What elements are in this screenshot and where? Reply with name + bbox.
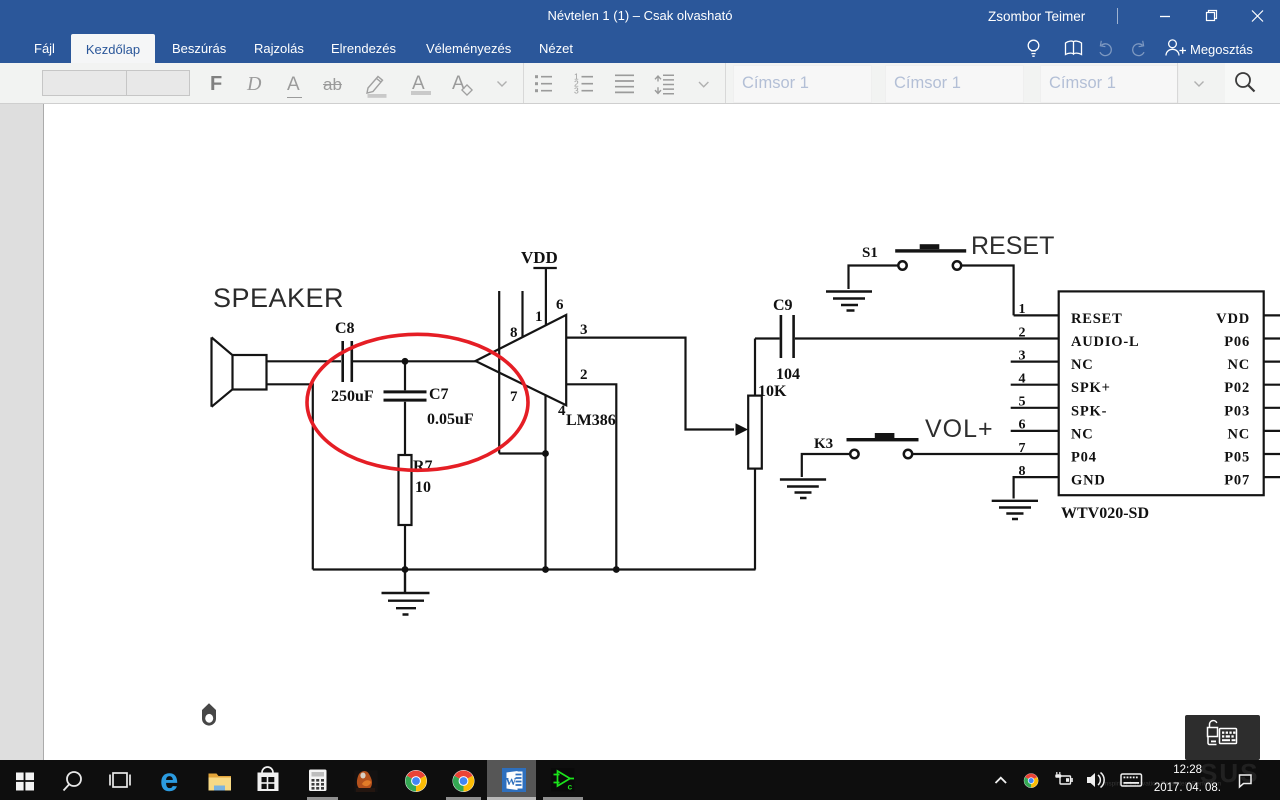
wire R7 to ground rail xyxy=(404,525,406,570)
wire S1 to ground xyxy=(849,266,899,290)
svg-text:SPEAKER: SPEAKER xyxy=(213,283,344,313)
node rail pin2 junction xyxy=(613,566,620,573)
svg-text:VOL+: VOL+ xyxy=(925,415,994,443)
svg-text:AUDIO-L: AUDIO-L xyxy=(1071,334,1139,350)
tray notification icon xyxy=(1240,775,1252,787)
svg-text:LM386: LM386 xyxy=(566,412,616,429)
wire pin3 output to volume pot xyxy=(566,338,734,430)
tray speaker icon xyxy=(1087,773,1104,788)
svg-text:P04: P04 xyxy=(1071,450,1097,466)
svg-text:250uF: 250uF xyxy=(331,388,374,405)
switch S1 xyxy=(895,244,966,269)
svg-text:4: 4 xyxy=(1019,372,1026,387)
running app indicators xyxy=(307,797,338,800)
svg-text:10: 10 xyxy=(415,479,431,496)
svg-text:8: 8 xyxy=(510,325,518,341)
annotation red ellipse highlight xyxy=(307,334,528,470)
svg-text:4: 4 xyxy=(558,403,566,419)
svg-text:2: 2 xyxy=(1019,325,1026,340)
wire IC pin6 NC stub xyxy=(1011,430,1059,432)
node pin4-pin7 junction xyxy=(542,450,549,457)
word icon xyxy=(502,768,526,792)
svg-text:5: 5 xyxy=(1019,395,1026,410)
switch K3 xyxy=(847,433,919,458)
svg-text:P06: P06 xyxy=(1224,334,1250,350)
svg-text:VDD: VDD xyxy=(521,248,558,267)
wire IC right pin stubs xyxy=(1264,315,1280,477)
circuit app icon xyxy=(551,768,575,792)
svg-text:2: 2 xyxy=(580,367,588,383)
wire S1 to IC pin1 xyxy=(961,266,1059,316)
capacitor C8 xyxy=(343,341,352,382)
svg-text:6: 6 xyxy=(556,297,564,313)
capacitor C9 xyxy=(781,315,794,358)
tray keyboard icon xyxy=(1121,774,1142,786)
svg-text:e: e xyxy=(160,761,178,798)
svg-text:8: 8 xyxy=(1019,464,1026,479)
wire IC pin3 NC stub xyxy=(1011,361,1059,363)
svg-text:3: 3 xyxy=(1019,348,1026,363)
arrow pot wiper xyxy=(736,423,749,436)
tray battery icon xyxy=(1055,772,1072,784)
node input junction xyxy=(402,358,409,365)
label IC right pins xyxy=(1216,311,1250,489)
label IC left pins xyxy=(1071,311,1139,489)
svg-text:S1: S1 xyxy=(862,245,878,261)
wire IC pin8 to ground xyxy=(1014,477,1059,498)
wire pin1 gain xyxy=(521,291,523,337)
node rail pin4 junction xyxy=(542,566,549,573)
store icon xyxy=(258,767,279,791)
task view icon xyxy=(110,773,130,787)
svg-text:C9: C9 xyxy=(773,297,793,314)
wire pot wiper node to C9 xyxy=(755,337,780,339)
wire pin2 to ground rail xyxy=(566,384,616,569)
wire ground rail xyxy=(313,568,756,570)
svg-text:W: W xyxy=(506,776,517,788)
IC U2 WTV020-SD xyxy=(1059,291,1264,495)
bullet list / numbered list / justify / line spacing xyxy=(530,69,715,99)
svg-text:SPK+: SPK+ xyxy=(1071,380,1111,396)
wire pin8 pin7 bypass xyxy=(499,291,545,454)
svg-text:VDD: VDD xyxy=(1216,311,1250,327)
tray chrome icon xyxy=(1024,773,1039,788)
node rail R7 junction xyxy=(402,566,409,573)
power VDD xyxy=(533,268,556,326)
svg-text:6: 6 xyxy=(1019,418,1026,433)
wire K3 to ground xyxy=(802,454,850,477)
search icon xyxy=(64,772,82,791)
op-amp U1 LM386 xyxy=(476,315,567,405)
svg-text:K3: K3 xyxy=(814,436,833,452)
svg-text:RESET: RESET xyxy=(1071,311,1123,327)
svg-text:C7: C7 xyxy=(429,386,449,403)
right icons: bulb, book, undo, redo, share xyxy=(1020,36,1192,60)
wire pin4 to ground rail xyxy=(544,395,546,570)
svg-text:NC: NC xyxy=(1071,426,1094,442)
svg-text:GND: GND xyxy=(1071,473,1106,489)
svg-text:R7: R7 xyxy=(413,458,433,475)
ground GND3 xyxy=(780,480,826,499)
wire C9 to IC pin2 xyxy=(795,337,1059,339)
svg-text:1: 1 xyxy=(535,309,543,325)
wire speaker+ to C8 xyxy=(267,360,342,362)
svg-text:7: 7 xyxy=(1019,441,1026,456)
svg-text:P07: P07 xyxy=(1224,473,1250,489)
speaker LS1 xyxy=(212,337,267,406)
wire IC pin4 stub xyxy=(1011,384,1059,386)
game app icon xyxy=(355,771,378,793)
wire IC pin5 stub xyxy=(1011,407,1059,409)
svg-text:1: 1 xyxy=(1019,302,1026,317)
svg-text:NC: NC xyxy=(1227,426,1250,442)
wire speaker- down xyxy=(267,384,313,569)
svg-text:WTV020-SD: WTV020-SD xyxy=(1061,505,1149,522)
wire C8 to op-amp input node xyxy=(353,360,477,362)
svg-text:3: 3 xyxy=(580,322,588,338)
svg-text:7: 7 xyxy=(510,389,518,405)
svg-text:RESET: RESET xyxy=(971,232,1054,260)
calculator icon xyxy=(309,770,327,792)
svg-text:NC: NC xyxy=(1071,357,1094,373)
label IC pin numbers 1-8 xyxy=(1019,302,1026,479)
start button xyxy=(16,773,34,791)
resistor R7 xyxy=(399,455,412,525)
capacitor C7 xyxy=(384,361,427,455)
svg-text:SPK-: SPK- xyxy=(1071,403,1107,419)
svg-text:NC: NC xyxy=(1227,357,1250,373)
wire K3 to IC pin7 xyxy=(912,453,1058,455)
ground GND1 xyxy=(382,570,430,615)
svg-text:C8: C8 xyxy=(335,320,355,337)
svg-text:P03: P03 xyxy=(1224,403,1250,419)
svg-text:P02: P02 xyxy=(1224,380,1250,396)
potentiometer RV1 10K xyxy=(748,339,762,570)
file explorer icon xyxy=(209,774,232,791)
ground GND4 xyxy=(992,501,1038,519)
svg-text:0.05uF: 0.05uF xyxy=(427,411,474,428)
chrome icon 2 xyxy=(453,770,475,792)
svg-text:10K: 10K xyxy=(758,383,787,400)
ground GND2 xyxy=(826,292,872,311)
svg-text:104: 104 xyxy=(776,366,800,383)
tray chevron xyxy=(996,778,1007,783)
svg-text:c: c xyxy=(568,782,573,792)
svg-text:P05: P05 xyxy=(1224,450,1250,466)
chrome icon 1 xyxy=(405,770,427,792)
